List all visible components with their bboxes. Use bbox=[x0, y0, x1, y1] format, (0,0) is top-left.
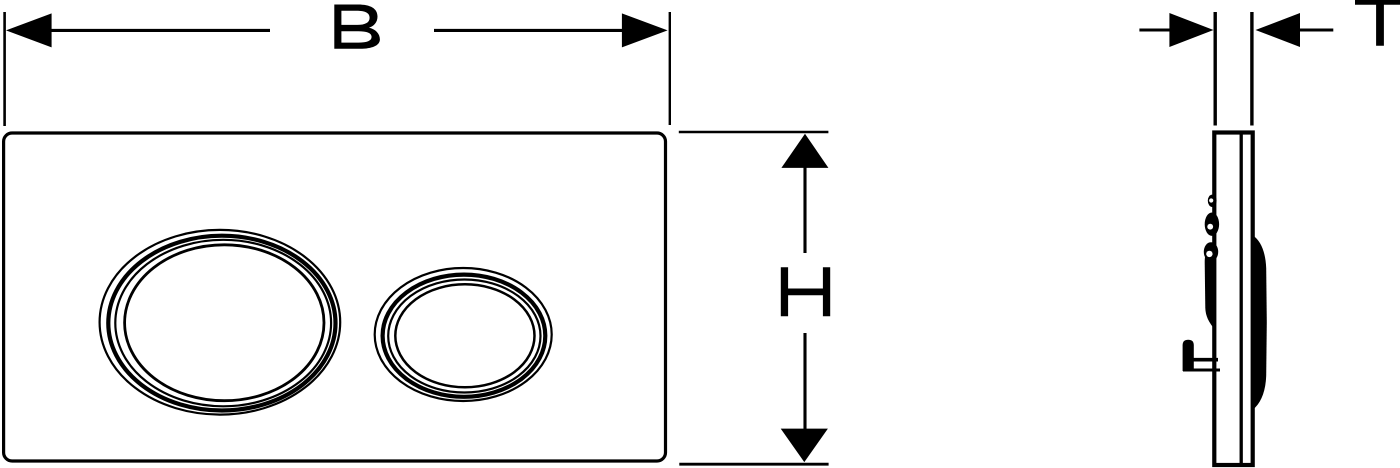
dimension T: left arrow line bbox=[1139, 29, 1172, 32]
dimension B: right arrowhead bbox=[622, 13, 668, 47]
side view: button bulge bbox=[1253, 235, 1267, 410]
small flush button ring 3 bbox=[388, 280, 540, 393]
flush plate outline (front view) bbox=[4, 133, 666, 461]
side view: hook arm bottom line bbox=[1183, 369, 1220, 372]
dimension H: up arrowhead bbox=[781, 134, 828, 168]
dimension label B bbox=[334, 5, 380, 49]
side view: hook arm top line bbox=[1192, 358, 1218, 362]
dimension T: right extension line bbox=[1250, 12, 1253, 126]
dimension B: left extension line bbox=[3, 12, 6, 126]
large flush button ring 2 (thick) bbox=[108, 236, 335, 411]
small flush button ring 1 (outer) bbox=[375, 268, 552, 401]
dimension T: left extension line bbox=[1213, 12, 1216, 126]
side view: clip pin 2 bbox=[1205, 213, 1219, 236]
dimension T: right arrow line bbox=[1300, 29, 1333, 32]
dimension T: right arrowhead bbox=[1256, 13, 1301, 47]
dimension H: bottom extension line bbox=[679, 463, 828, 466]
side view: inner face line bbox=[1240, 134, 1243, 463]
large flush button ring 4 (inner) bbox=[125, 245, 324, 401]
side view: plate body bbox=[1214, 133, 1252, 466]
dimension B: left arrowhead bbox=[6, 13, 52, 47]
small flush button ring 2 (thick) bbox=[383, 275, 546, 397]
side view: clip pin 1 bbox=[1208, 195, 1217, 207]
side view: hook stub bbox=[1183, 340, 1194, 371]
dimension H: top extension line bbox=[679, 131, 829, 134]
dimension H: down arrowhead bbox=[781, 429, 828, 463]
dimension H: upper line segment bbox=[803, 166, 806, 253]
side view: leaf spring bbox=[1205, 244, 1216, 331]
dimension label H bbox=[781, 267, 830, 316]
dimension B: right extension line bbox=[669, 12, 671, 125]
large flush button ring 3 bbox=[115, 240, 331, 407]
large flush button ring 1 (outer) bbox=[100, 230, 341, 415]
small flush button ring 4 (inner) bbox=[395, 284, 534, 387]
dimension T: left arrowhead bbox=[1169, 13, 1213, 47]
dimension H: lower line segment bbox=[803, 333, 806, 429]
dimension label T bbox=[1355, 0, 1400, 46]
dimension B: right line segment bbox=[434, 29, 624, 32]
dimension B: left line segment bbox=[48, 29, 270, 32]
side view: clip pin 3 bbox=[1204, 242, 1218, 261]
